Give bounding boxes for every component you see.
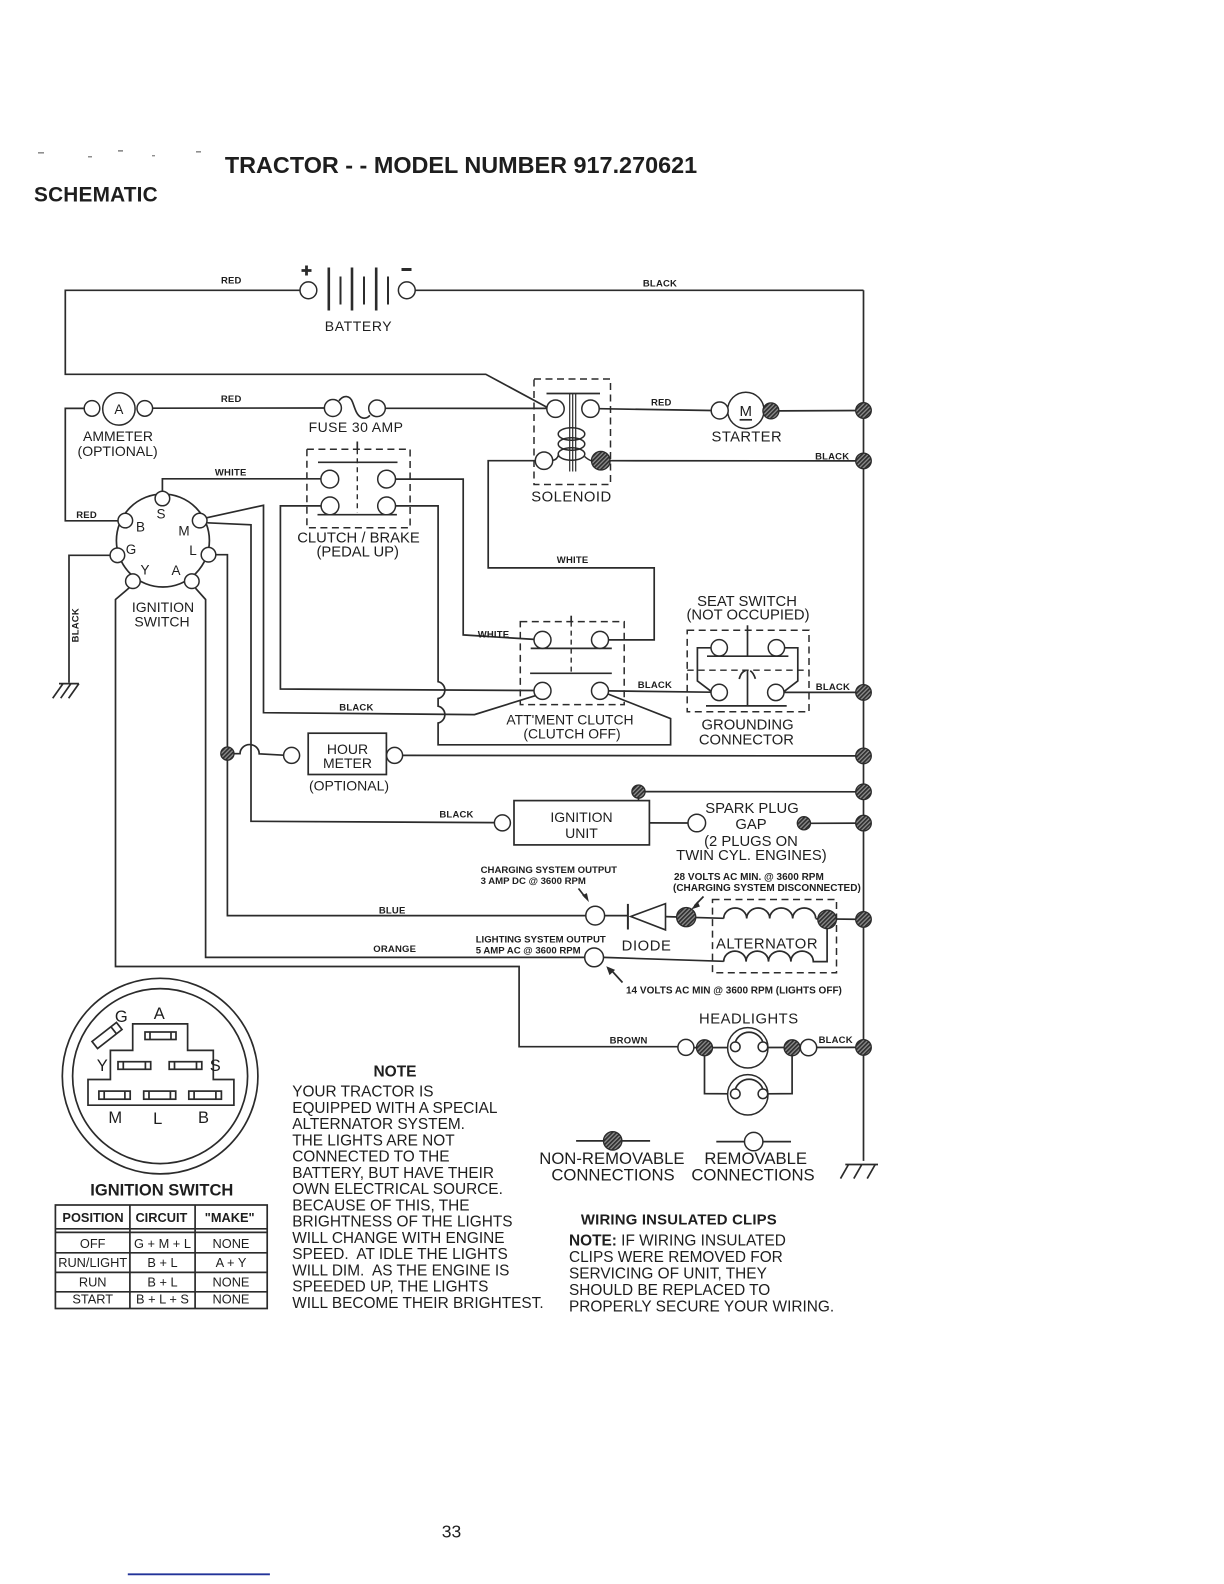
svg-text:OFF: OFF	[80, 1236, 106, 1251]
ignition unit right terminal	[688, 814, 706, 832]
svg-text:NONE: NONE	[213, 1291, 250, 1306]
connector pin S	[169, 1062, 202, 1070]
connector pin G (angled)	[92, 1022, 122, 1048]
wire: Y terminal down to brown headlight wire	[116, 588, 678, 1047]
wire: connector to diode	[605, 915, 628, 917]
svg-text:S: S	[156, 507, 165, 522]
svg-text:SHOULD BE REPLACED TO: SHOULD BE REPLACED TO	[569, 1282, 770, 1299]
svg-text:28 VOLTS AC MIN. @ 3600 RPM: 28 VOLTS AC MIN. @ 3600 RPM	[674, 872, 824, 883]
svg-text:BLACK: BLACK	[439, 809, 473, 820]
att'ment clutch inner middle bar	[530, 672, 612, 674]
headlamp E2 body	[728, 1075, 768, 1115]
wire: clutch/brake bottom-left to att'ment clutch bottom-left	[280, 506, 534, 691]
wire: ignition unit top to bus	[639, 792, 864, 801]
svg-text:NONE: NONE	[213, 1236, 250, 1251]
hour meter box	[308, 733, 386, 774]
svg-text:14 VOLTS AC MIN @ 3600 RPM (L: 14 VOLTS AC MIN @ 3600 RPM (LIGHTS OFF)	[626, 986, 842, 997]
svg-text:SWITCH: SWITCH	[134, 614, 189, 630]
svg-text:BLACK: BLACK	[816, 682, 850, 693]
svg-text:SOLENOID: SOLENOID	[531, 490, 611, 506]
headlight removable connector right	[800, 1039, 816, 1055]
att'ment clutch terminal top-left	[534, 631, 551, 648]
wire: battery positive to left rail, down, across to solenoid	[65, 290, 547, 407]
clutch/brake inner bottom bar	[318, 514, 397, 516]
svg-text:BLACK: BLACK	[819, 1035, 853, 1046]
solenoid top bar	[547, 393, 601, 395]
bus junction at spark plug wire	[856, 815, 872, 831]
svg-text:RED: RED	[76, 510, 97, 521]
ground (chassis, left)	[53, 684, 79, 699]
svg-text:SPARK PLUG: SPARK PLUG	[705, 801, 798, 817]
svg-text:A + Y: A + Y	[216, 1255, 247, 1270]
svg-text:BRIGHTNESS OF THE LIGHTS: BRIGHTNESS OF THE LIGHTS	[292, 1214, 512, 1231]
wiring insulated clips body	[569, 1233, 834, 1316]
ammeter left terminal	[84, 401, 100, 417]
bus junction at seat wire	[856, 685, 872, 701]
wire: starter to right bus	[779, 410, 864, 412]
wire: connector to alternator bottom winding	[604, 957, 724, 961]
svg-text:L: L	[189, 543, 197, 558]
wire: L line tap with hop arc to hour meter	[227, 745, 283, 756]
scan specks near title	[38, 150, 201, 158]
ignition unit U1 left terminal	[494, 815, 510, 831]
ignition switch terminal S	[155, 491, 170, 506]
removable connector on orange wire	[585, 948, 604, 967]
headlight junction right (non-removable)	[784, 1040, 800, 1056]
svg-text:Y: Y	[140, 563, 149, 578]
wire: across headlamp 1	[694, 1046, 864, 1048]
wire: L terminal down to blue output	[216, 555, 586, 916]
battery terminal circle (+) removable	[300, 282, 317, 299]
wire: clutch/brake top-right to att'ment clutch (white)	[396, 479, 535, 639]
wire: battery negative to right bus	[415, 289, 863, 291]
wire: hour meter to right bus	[403, 754, 864, 757]
connector pin B	[189, 1091, 222, 1099]
svg-text:NOTE: NOTE	[373, 1064, 416, 1081]
leader arrow to orange connector	[613, 972, 623, 983]
svg-text:B + L: B + L	[147, 1275, 177, 1290]
svg-text:(NOT OCCUPIED): (NOT OCCUPIED)	[686, 608, 809, 624]
ignition switch terminal A	[185, 574, 200, 589]
junction (non-removable) on L line at hour meter tap	[221, 747, 234, 760]
svg-text:B: B	[136, 520, 145, 535]
svg-text:METER: METER	[323, 755, 372, 771]
note block body	[292, 1084, 543, 1313]
wire: ignition unit to spark plug terminal	[649, 822, 688, 824]
svg-text:GROUNDING: GROUNDING	[702, 717, 794, 733]
svg-text:NOTE: IF WIRING INSULATED: NOTE: IF WIRING INSULATED	[569, 1233, 786, 1250]
svg-text:OWN ELECTRICAL SOURCE.: OWN ELECTRICAL SOURCE.	[292, 1181, 503, 1198]
ignition switch pin letters	[126, 507, 198, 579]
seat switch terminal top-left	[711, 640, 727, 656]
seat switch right bracket	[784, 648, 798, 692]
removable connector on blue wire	[586, 906, 605, 925]
battery BT1 cells	[329, 268, 388, 311]
headlight removable connector left	[678, 1039, 694, 1055]
att'ment clutch terminal bottom-right	[592, 682, 609, 699]
svg-text:S: S	[210, 1057, 221, 1075]
connector pin Y	[118, 1062, 151, 1070]
headlamp E1 body	[728, 1028, 768, 1068]
svg-text:EQUIPPED WITH A SPECIAL: EQUIPPED WITH A SPECIAL	[292, 1100, 498, 1117]
legend: non-removable connection symbol	[576, 1140, 650, 1142]
svg-text:M: M	[178, 524, 189, 539]
wire: fuse to solenoid	[385, 407, 547, 409]
svg-text:SERVICING OF UNIT, THEY: SERVICING OF UNIT, THEY	[569, 1266, 767, 1283]
starter motor M1 body	[728, 392, 764, 428]
headlamp E2 filament terminals	[731, 1089, 741, 1099]
svg-text:CONNECTIONS: CONNECTIONS	[691, 1166, 814, 1185]
ignition switch terminal B	[118, 513, 133, 528]
svg-text:CHARGING SYSTEM OUTPUT: CHARGING SYSTEM OUTPUT	[481, 865, 618, 876]
ignition switch terminal G	[110, 548, 125, 563]
svg-text:33: 33	[442, 1522, 461, 1542]
bus junction at alternator wire	[856, 912, 872, 928]
wire: alternator to bus	[816, 918, 864, 921]
clutch/brake terminal top-left	[321, 470, 339, 488]
wire: right ground bus	[863, 290, 865, 1161]
svg-text:BLACK: BLACK	[339, 702, 373, 713]
diode D1	[627, 904, 629, 930]
att'ment clutch actuator dashed center line	[570, 622, 572, 674]
svg-text:BLACK: BLACK	[643, 279, 677, 290]
svg-text:L: L	[153, 1110, 162, 1128]
svg-text:IGNITION SWITCH: IGNITION SWITCH	[90, 1182, 233, 1200]
svg-text:ALTERNATOR SYSTEM.: ALTERNATOR SYSTEM.	[292, 1116, 465, 1133]
solenoid coil	[552, 428, 592, 461]
bus junction at solenoid black wire	[856, 453, 872, 469]
svg-text:G: G	[126, 542, 137, 557]
svg-text:(CHARGING SYSTEM DISCONNECTED): (CHARGING SYSTEM DISCONNECTED)	[673, 883, 861, 894]
ignition switch terminal Y	[126, 574, 141, 589]
svg-text:G + M + L: G + M + L	[134, 1236, 191, 1251]
svg-text:(OPTIONAL): (OPTIONAL)	[309, 778, 389, 794]
svg-text:Y: Y	[97, 1057, 108, 1075]
connector pin A	[145, 1032, 176, 1040]
wire: diode to alternator	[666, 917, 724, 919]
starter right junction (non-removable)	[763, 403, 779, 419]
svg-text:UNIT: UNIT	[565, 825, 598, 841]
svg-text:STARTER: STARTER	[712, 430, 783, 446]
svg-text:CIRCUIT: CIRCUIT	[135, 1210, 187, 1225]
svg-text:5 AMP AC @ 3600 RPM: 5 AMP AC @ 3600 RPM	[476, 945, 581, 956]
wire: solenoid to starter (red)	[599, 409, 711, 411]
svg-text:SPEEDED UP, THE LIGHTS: SPEEDED UP, THE LIGHTS	[292, 1279, 488, 1296]
clutch/brake switch S2 dashed box	[307, 449, 410, 528]
svg-text:A: A	[154, 1005, 165, 1023]
svg-text:"MAKE": "MAKE"	[205, 1210, 255, 1225]
footer blue rule	[128, 1573, 270, 1575]
svg-text:RED: RED	[221, 276, 242, 287]
svg-text:FUSE 30 AMP: FUSE 30 AMP	[309, 419, 404, 435]
att'ment clutch terminal top-right	[592, 631, 609, 648]
hour meter right terminal	[387, 747, 403, 763]
junction (non-removable) alternator output	[818, 910, 837, 929]
starter left terminal (removable)	[711, 402, 728, 419]
wire: att'ment clutch bottom-right to seat switch (black)	[609, 691, 712, 692]
wire: solenoid bottom-left to att'ment clutch top-right (white)	[488, 461, 654, 640]
svg-text:BROWN: BROWN	[610, 1035, 648, 1046]
clutch/brake terminal bottom-left	[321, 497, 339, 515]
wire: S terminal up and right (white) to clutch/brake	[162, 479, 321, 491]
wire: ammeter left lead down to ignition switch B	[65, 408, 118, 520]
headlamp E1 filament terminals	[731, 1042, 741, 1052]
bus junction at ignition unit top wire	[856, 784, 872, 800]
svg-text:M: M	[108, 1109, 122, 1127]
svg-text:A: A	[171, 563, 180, 578]
att'ment clutch actuator stub	[570, 616, 572, 622]
svg-text:ORANGE: ORANGE	[373, 944, 416, 955]
svg-text:CONNECTED TO THE: CONNECTED TO THE	[292, 1149, 449, 1166]
clutch/brake terminal top-right	[378, 470, 396, 488]
wire: G terminal to left ground	[69, 555, 110, 683]
svg-text:DIODE: DIODE	[622, 939, 672, 955]
wire: M terminal to att'ment clutch (black)	[207, 505, 537, 714]
svg-text:A: A	[114, 402, 123, 417]
svg-text:CONNECTOR: CONNECTOR	[699, 733, 794, 749]
seat switch bar joining top terminals	[707, 655, 788, 657]
ignition unit box	[514, 801, 649, 845]
wire: solenoid coil to right bus (black)	[610, 460, 863, 462]
seat switch left bracket	[697, 648, 711, 692]
svg-text:(CLUTCH OFF): (CLUTCH OFF)	[523, 726, 620, 742]
svg-text:BLACK: BLACK	[71, 608, 82, 642]
svg-text:IGNITION: IGNITION	[550, 809, 612, 825]
headlamp E1 reflector arc	[735, 1032, 763, 1042]
svg-text:(OPTIONAL): (OPTIONAL)	[78, 443, 158, 459]
wire: M terminal to ignition unit (black)	[207, 523, 494, 823]
fuse F1 element	[339, 397, 370, 419]
svg-text:PROPERLY SECURE YOUR WIRING.: PROPERLY SECURE YOUR WIRING.	[569, 1299, 834, 1316]
solenoid top-left terminal	[547, 400, 564, 417]
svg-text:RED: RED	[221, 394, 242, 405]
clutch/brake actuator dashed center line	[356, 449, 358, 512]
bus junction at hour meter wire	[856, 748, 872, 764]
ground (chassis, right bus)	[841, 1165, 879, 1179]
battery terminal circle (-) removable	[398, 282, 415, 299]
svg-text:BATTERY, BUT HAVE THEIR: BATTERY, BUT HAVE THEIR	[292, 1165, 494, 1182]
seat switch terminal bottom-left	[711, 684, 727, 700]
seat switch dashed mid line	[687, 669, 809, 671]
svg-text:(PEDAL UP): (PEDAL UP)	[316, 545, 399, 561]
svg-text:GAP: GAP	[735, 817, 766, 833]
bus junction at starter wire	[856, 403, 872, 419]
svg-text:SPEED. AT IDLE THE LIGHTS: SPEED. AT IDLE THE LIGHTS	[292, 1246, 508, 1263]
alternator bottom winding	[724, 929, 827, 962]
svg-text:WILL CHANGE WITH ENGINE: WILL CHANGE WITH ENGINE	[292, 1230, 504, 1247]
svg-text:TWIN CYL. ENGINES): TWIN CYL. ENGINES)	[676, 848, 827, 864]
att'ment clutch terminal bottom-left	[534, 682, 551, 699]
leader arrow to blue wire connector	[579, 889, 586, 898]
solenoid bottom-left terminal	[535, 452, 552, 469]
svg-text:G: G	[115, 1008, 128, 1026]
ammeter A1 body	[103, 393, 135, 425]
fuse left terminal	[324, 400, 341, 417]
battery minus symbol	[402, 268, 412, 271]
alternator G1 dashed box	[713, 900, 837, 973]
solenoid plunger lines	[570, 394, 576, 472]
seat switch S4 dashed box	[687, 630, 809, 712]
ignition switch connector face: outer ring	[62, 978, 258, 1174]
alternator top winding	[724, 908, 816, 919]
svg-text:CONNECTIONS: CONNECTIONS	[551, 1166, 674, 1185]
svg-text:BECAUSE OF THIS, THE: BECAUSE OF THIS, THE	[292, 1197, 469, 1214]
ignition switch table frame	[55, 1205, 267, 1309]
svg-text:BATTERY: BATTERY	[325, 318, 393, 334]
svg-text:AMMETER: AMMETER	[83, 428, 153, 444]
svg-text:B: B	[198, 1109, 209, 1127]
svg-text:LIGHTING SYSTEM OUTPUT: LIGHTING SYSTEM OUTPUT	[476, 935, 606, 946]
svg-text:RED: RED	[651, 398, 672, 409]
svg-text:WHITE: WHITE	[478, 629, 510, 640]
svg-text:START: START	[72, 1291, 113, 1306]
seat switch center actuator line (top)	[747, 625, 749, 656]
wire: seat switch to right bus (black)	[784, 691, 864, 693]
fuse right terminal	[369, 400, 386, 417]
wire: clutch/brake bottom-right down with wire hops to att'ment clutch bottom loop	[396, 506, 671, 745]
ignition switch terminal M	[192, 513, 207, 528]
junction (non-removable) diode-alternator	[677, 908, 696, 927]
svg-text:WIRING INSULATED CLIPS: WIRING INSULATED CLIPS	[581, 1213, 777, 1229]
table header	[62, 1210, 254, 1225]
svg-text:B + L: B + L	[147, 1255, 177, 1270]
connector pin L	[144, 1091, 176, 1099]
junction (non-removable) on spark plug wire	[797, 817, 810, 830]
svg-text:WHITE: WHITE	[557, 555, 589, 566]
svg-text:M: M	[740, 403, 753, 420]
table rows	[58, 1236, 249, 1307]
clutch/brake actuator stub	[356, 442, 358, 450]
connector stepped key outline	[88, 1024, 234, 1105]
leader arrow to diode junction	[695, 897, 704, 906]
seat switch center actuator line (bottom)	[747, 670, 749, 706]
svg-text:WILL BECOME THEIR BRIGHTEST.: WILL BECOME THEIR BRIGHTEST.	[292, 1295, 543, 1312]
bus junction at headlight wire	[856, 1040, 872, 1056]
svg-text:THE LIGHTS ARE NOT: THE LIGHTS ARE NOT	[292, 1132, 455, 1149]
svg-text:ALTERNATOR: ALTERNATOR	[716, 937, 818, 953]
connector pin letters	[97, 1005, 221, 1128]
clutch/brake inner top bar	[318, 461, 398, 463]
connector pin M	[99, 1091, 130, 1099]
connector inner ring	[73, 989, 248, 1164]
seat switch contact dome	[739, 671, 755, 679]
svg-text:SCHEMATIC: SCHEMATIC	[34, 184, 158, 207]
svg-text:YOUR TRACTOR IS: YOUR TRACTOR IS	[292, 1084, 433, 1101]
headlamp E2 reflector arc	[735, 1079, 763, 1089]
seat switch terminal top-right	[768, 640, 784, 656]
svg-text:WHITE: WHITE	[215, 467, 247, 478]
solenoid bottom-right junction (non-removable)	[592, 451, 611, 470]
svg-text:3 AMP DC @ 3600 RPM: 3 AMP DC @ 3600 RPM	[481, 876, 586, 887]
seat switch terminal bottom-right	[768, 684, 784, 700]
wire: ammeter to fuse	[153, 407, 325, 409]
ammeter right terminal	[137, 401, 153, 417]
att'ment clutch switch S3 dashed box	[520, 622, 624, 705]
svg-text:BLUE: BLUE	[379, 905, 406, 916]
wire: spark plug junction to bus	[811, 822, 864, 824]
clutch/brake terminal bottom-right	[378, 497, 396, 515]
svg-text:CLIPS WERE REMOVED FOR: CLIPS WERE REMOVED FOR	[569, 1249, 783, 1266]
wire: headlight parallel drop right	[768, 1056, 792, 1094]
svg-text:B + L + S: B + L + S	[136, 1291, 189, 1306]
svg-text:RUN: RUN	[79, 1275, 107, 1290]
wire: A terminal down to orange output	[196, 588, 585, 957]
svg-text:BLACK: BLACK	[815, 451, 849, 462]
wire: headlight parallel drop left	[705, 1056, 731, 1094]
solenoid top-right terminal	[582, 400, 599, 417]
solenoid K1 dashed box	[534, 379, 611, 485]
att'ment clutch inner bar under top terminals	[531, 647, 612, 649]
battery plus symbol	[302, 266, 312, 276]
svg-text:RUN/LIGHT: RUN/LIGHT	[58, 1255, 127, 1270]
ignition switch S1 body circle	[116, 494, 209, 587]
hour meter M2 left terminal	[284, 747, 300, 763]
svg-text:WILL DIM. AS THE ENGINE IS: WILL DIM. AS THE ENGINE IS	[292, 1262, 509, 1279]
svg-text:NONE: NONE	[213, 1275, 250, 1290]
svg-text:HEADLIGHTS: HEADLIGHTS	[699, 1012, 799, 1028]
seat switch bottom bar	[706, 705, 787, 707]
legend: removable connection symbol	[716, 1141, 791, 1143]
headlight junction left (non-removable)	[697, 1040, 713, 1056]
ignition switch terminal L	[201, 547, 216, 562]
svg-text:POSITION: POSITION	[62, 1210, 123, 1225]
junction (non-removable) at ignition unit top	[632, 785, 645, 798]
svg-text:TRACTOR - - MODEL NUMBER 917.2: TRACTOR - - MODEL NUMBER 917.270621	[225, 152, 697, 178]
svg-text:BLACK: BLACK	[638, 680, 672, 691]
